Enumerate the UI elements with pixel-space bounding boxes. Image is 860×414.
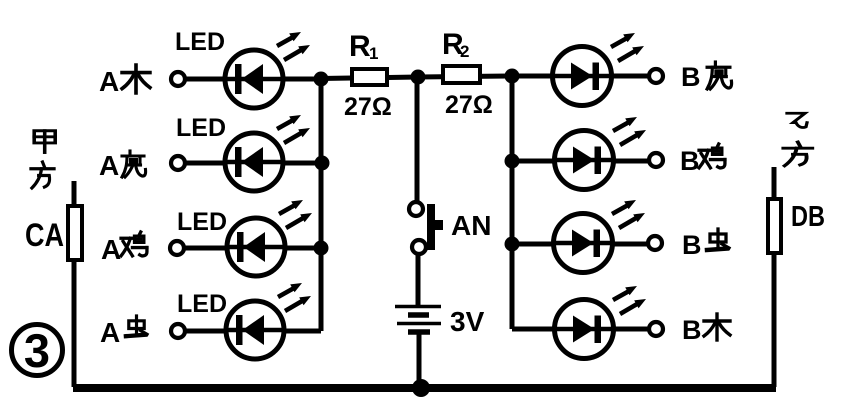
svg-text:A: A: [100, 317, 120, 348]
svg-text:2: 2: [460, 42, 469, 61]
svg-text:A: A: [99, 150, 119, 181]
svg-text:CA: CA: [25, 217, 64, 253]
svg-text:LED: LED: [175, 28, 225, 56]
svg-text:LED: LED: [176, 114, 226, 142]
svg-text:B: B: [681, 62, 701, 92]
svg-text:DB: DB: [791, 201, 825, 233]
svg-text:LED: LED: [177, 290, 227, 318]
svg-text:A: A: [101, 234, 121, 265]
svg-text:LED: LED: [177, 208, 227, 236]
svg-text:27Ω: 27Ω: [445, 91, 493, 119]
svg-text:B: B: [680, 146, 700, 176]
svg-text:R: R: [349, 30, 371, 63]
svg-text:27Ω: 27Ω: [344, 93, 392, 121]
svg-text:3: 3: [24, 324, 50, 377]
svg-text:A: A: [99, 66, 119, 97]
svg-text:B: B: [682, 315, 702, 345]
svg-text:B: B: [682, 230, 702, 260]
svg-text:1: 1: [369, 44, 378, 63]
svg-text:AN: AN: [451, 210, 491, 241]
svg-text:3V: 3V: [450, 306, 485, 337]
